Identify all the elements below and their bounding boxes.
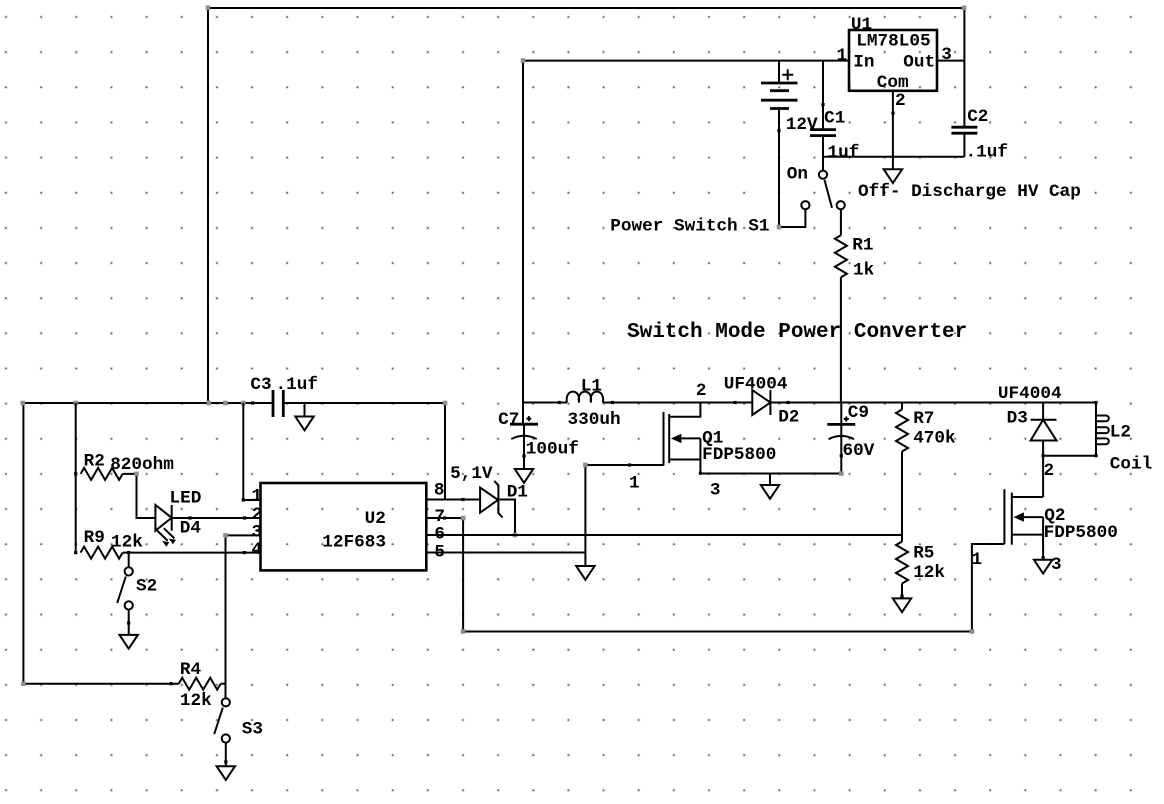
svg-text:100uf: 100uf [526, 440, 579, 460]
pin 8 U2 [434, 480, 445, 500]
label S3 [242, 720, 263, 740]
svg-text:Com: Com [877, 73, 909, 93]
transistor Q1 FDP5800 [664, 403, 703, 475]
svg-text:12k: 12k [913, 563, 945, 583]
ground C7 [515, 469, 533, 483]
svg-text:U2: U2 [365, 509, 386, 529]
svg-text:LED: LED [170, 489, 202, 509]
svg-text:12F683: 12F683 [322, 533, 386, 553]
svg-text:R5: R5 [913, 543, 934, 563]
main rail y=402.5 [523, 401, 1096, 456]
node handle (208,8) [206, 6, 211, 11]
label 3 Q1 source [710, 481, 721, 501]
label U1 [851, 15, 872, 35]
label LED [170, 489, 202, 509]
node handle (75.7,403) [73, 401, 78, 406]
node handle (841.3,473.5) [839, 471, 844, 476]
svg-text:12k: 12k [111, 532, 143, 552]
U1 LM78L05 regulator box [849, 30, 937, 91]
node handle (243.3,403) [241, 401, 246, 406]
node handle (523,60.6) [521, 58, 526, 63]
node handle (463.1,631.5) [461, 629, 466, 634]
wire D3 cathode junction to L2 [1042, 401, 1098, 457]
label 2 Q2 drain [1044, 461, 1055, 481]
node handle (225.5,535.4) [223, 533, 228, 538]
LED D4 [155, 505, 176, 547]
node handle (22.7,403) [20, 401, 25, 406]
node handle (136.5,473.9) [134, 472, 139, 477]
node handle (964,8) [962, 6, 967, 11]
svg-text:Switch Mode Power Converter: Switch Mode Power Converter [627, 321, 967, 344]
svg-text:3: 3 [941, 45, 952, 65]
wire U2 pin8 to D1 anode [426, 498, 480, 501]
pin 6 U2 [434, 524, 445, 544]
label FDP5800 Q1 [702, 445, 776, 465]
wire D1 cathode to pin6 net [498, 500, 515, 536]
svg-text:R7: R7 [913, 409, 934, 429]
svg-text:L2: L2 [1110, 422, 1131, 442]
inductor L1 330uh [567, 392, 604, 403]
label FDP5800 Q2 [1044, 523, 1118, 543]
svg-text:R2: R2 [84, 452, 105, 472]
label In [853, 53, 874, 73]
node handle (209,403) [207, 401, 212, 406]
label 3 Q2 source [1051, 555, 1062, 575]
svg-text:R9: R9 [84, 528, 105, 548]
label Off- Discharge HV Cap [858, 182, 1081, 202]
label 2 Q1 drain [696, 381, 707, 401]
label C7 [498, 410, 519, 430]
resistor R9 12k [74, 547, 123, 559]
label 470k [913, 429, 956, 449]
label .1uf C3 [276, 375, 318, 395]
wire bottom left bus to R4 [23, 682, 178, 685]
switch S3 [214, 698, 230, 766]
label Coil [1110, 454, 1152, 474]
svg-text:Coil: Coil [1110, 454, 1152, 474]
svg-text:Out: Out [903, 53, 935, 73]
svg-text:1: 1 [252, 487, 263, 507]
capacitor C3 .1uf [251, 390, 283, 417]
node handle (515,535) [513, 533, 518, 538]
wire top bus from left section to U1 output [208, 8, 964, 403]
label Power Switch S1 [610, 217, 769, 237]
svg-text:820ohm: 820ohm [110, 455, 174, 475]
svg-text:60V: 60V [843, 441, 875, 461]
wire U2 pin1 from left bus [242, 403, 261, 502]
label C9 [848, 403, 869, 423]
pin 3 U1 [941, 45, 952, 65]
ground R5 [893, 598, 911, 612]
node handle (445,403) [443, 401, 448, 406]
label 5,1V [450, 464, 493, 484]
wire U2 pin7 down and bottom bus to Q2 gate [426, 516, 1004, 631]
svg-text:2: 2 [1044, 461, 1055, 481]
wire left bus y=403 [23, 403, 445, 684]
U2 microcontroller box 12F683 [261, 483, 427, 570]
svg-text:D3: D3 [1007, 408, 1028, 428]
svg-text:L1: L1 [581, 376, 602, 396]
label R2 [84, 452, 105, 472]
svg-text:D2: D2 [778, 408, 799, 428]
svg-text:C3: C3 [250, 375, 271, 395]
svg-text:470k: 470k [913, 429, 956, 449]
svg-text:12k: 12k [180, 691, 212, 711]
svg-text:FDP5800: FDP5800 [702, 445, 776, 465]
label 820ohm [110, 455, 174, 475]
label D1 [507, 482, 528, 502]
label C3 [250, 375, 271, 395]
pin 3 U2 [252, 522, 263, 542]
wire U2 pin3 to R4 and S3 [226, 535, 261, 697]
label 1 Q2 gate [972, 550, 983, 570]
svg-text:12V: 12V [786, 115, 818, 135]
svg-text:2: 2 [895, 91, 906, 111]
node handle (463.1,518) [461, 516, 466, 521]
svg-text:1k: 1k [853, 261, 875, 281]
svg-text:5,1V: 5,1V [450, 464, 493, 484]
label Out [903, 53, 935, 73]
label S2 [136, 577, 157, 597]
plus C7 [526, 416, 531, 421]
svg-text:UF4004: UF4004 [724, 374, 788, 394]
svg-text:S2: S2 [136, 577, 157, 597]
label R9 [84, 528, 105, 548]
label UF4004 D2 [724, 374, 788, 394]
pin 4 U2 [252, 540, 263, 560]
switch S1 [801, 157, 845, 209]
ground Q1 source [761, 474, 779, 499]
capacitor C7 100uf [510, 424, 538, 469]
wire U2 pin5 to ground and Q1 gate [426, 463, 663, 566]
ground S2 [120, 635, 138, 649]
node handle (779,227) [777, 225, 782, 230]
wire R9 to U2 pin4 [123, 551, 261, 554]
wire LED cathode to U2 pin2 [172, 516, 261, 519]
label D4 [180, 519, 202, 539]
svg-text:R1: R1 [852, 236, 873, 256]
resistor R2 820ohm [74, 468, 123, 480]
label 12V [786, 115, 818, 135]
title Switch Mode Power Converter [627, 321, 967, 344]
svg-text:1uf: 1uf [828, 143, 860, 163]
svg-text:330uh: 330uh [568, 410, 621, 430]
wire feeder to R2 R9 [75, 403, 77, 553]
pin 2 U1 [895, 91, 906, 111]
capacitor C9 60V [827, 403, 855, 474]
node handle (971.9,631.5) [970, 629, 975, 634]
label C1 [824, 108, 845, 128]
resistor R1 1k [835, 235, 847, 277]
wire S1 to R1 [840, 209, 842, 235]
wire U1 Out to C2 [937, 60, 964, 62]
ground pin5 [576, 566, 594, 580]
label 12k R4 [180, 691, 212, 711]
ground S3 [217, 766, 235, 780]
label D2 [778, 408, 799, 428]
svg-text:C9: C9 [848, 403, 869, 423]
label LM78L05 [856, 31, 930, 51]
label R7 [913, 409, 934, 429]
wire 12V input bus to U1 In [523, 61, 849, 425]
svg-text:8: 8 [434, 480, 445, 500]
label 330uh [568, 410, 621, 430]
zener diode D1 5,1V [480, 481, 503, 518]
svg-text:Off- Discharge HV Cap: Off- Discharge HV Cap [858, 182, 1081, 202]
label 100uf [526, 440, 579, 460]
pin 7 U2 [434, 507, 445, 527]
ground Q2 [1034, 560, 1052, 574]
wire Q1 source to C9 minus [700, 473, 841, 475]
label UF4004 D3 [998, 384, 1062, 404]
label 12k R9 [111, 532, 143, 552]
label On [787, 164, 808, 184]
resistor R5 12k [896, 535, 908, 598]
wire R2 to LED anode [123, 474, 156, 518]
diode D2 UF4004 [752, 390, 770, 415]
label R1 [852, 236, 873, 256]
svg-text:2: 2 [696, 381, 707, 401]
pin 5 U2 [434, 542, 445, 562]
pin 1 U2 [252, 487, 263, 507]
label 60V [843, 441, 875, 461]
svg-text:FDP5800: FDP5800 [1044, 523, 1118, 543]
label L2 [1110, 422, 1131, 442]
label Q2 [1044, 506, 1065, 526]
pin 1 U1 [837, 46, 848, 66]
label Q1 [702, 429, 723, 449]
node handle (23.4,683.7) [21, 681, 26, 686]
svg-text:C2: C2 [967, 107, 988, 127]
svg-text:1: 1 [837, 46, 848, 66]
svg-text:Power Switch S1: Power Switch S1 [610, 217, 769, 237]
battery B1 12V [761, 61, 798, 227]
capacitor C1 1uf [810, 61, 836, 157]
diode D3 UF4004 [1031, 403, 1057, 498]
ground C3 [295, 403, 313, 430]
label R5 [913, 543, 934, 563]
svg-text:3: 3 [1051, 555, 1062, 575]
capacitor C2 .1uf [951, 61, 977, 157]
svg-text:.1uf: .1uf [276, 375, 318, 395]
label U2 [365, 509, 386, 529]
wire battery minus to S1 left contact [779, 209, 805, 227]
svg-text:C1: C1 [824, 108, 845, 128]
svg-text:1: 1 [629, 473, 640, 493]
node handle (585.4,464) [583, 463, 588, 468]
svg-text:R4: R4 [180, 660, 202, 680]
svg-text:4: 4 [252, 540, 263, 560]
wire R1 to main rail [840, 277, 842, 402]
label L1 [581, 376, 602, 396]
label D3 [1007, 408, 1028, 428]
label .1uf C2 [966, 143, 1008, 163]
svg-text:D4: D4 [180, 519, 202, 539]
pin 2 U2 [252, 505, 263, 525]
resistor R4 12k [179, 678, 226, 690]
label 12k R5 [913, 563, 945, 583]
wire C1 to C2 bottom bus [823, 156, 964, 158]
label 1k [853, 261, 875, 281]
transistor Q2 FDP5800 [1004, 489, 1044, 559]
label 12F683 [322, 533, 386, 553]
svg-text:C7: C7 [498, 410, 519, 430]
label Com [877, 73, 909, 93]
svg-text:3: 3 [710, 481, 721, 501]
wire U2 pin6 to R7 R5 junction [426, 534, 902, 536]
wire U1 Com to ground [891, 91, 894, 170]
label 1 Q1 gate [629, 473, 640, 493]
svg-text:In: In [853, 53, 874, 73]
resistor R7 470k [896, 403, 908, 536]
svg-text:1: 1 [972, 550, 983, 570]
ground Com [884, 169, 902, 183]
label R4 [180, 660, 202, 680]
svg-text:S3: S3 [242, 720, 263, 740]
plus C9 [844, 417, 849, 422]
svg-text:.1uf: .1uf [966, 143, 1008, 163]
label 1uf [828, 143, 860, 163]
svg-text:UF4004: UF4004 [998, 384, 1062, 404]
label C2 [967, 107, 988, 127]
node handle (225.4,403) [223, 401, 228, 406]
inductor L2 Coil [1096, 416, 1109, 445]
svg-text:LM78L05: LM78L05 [856, 31, 930, 51]
svg-text:On: On [787, 164, 808, 184]
switch S2 [117, 553, 133, 635]
